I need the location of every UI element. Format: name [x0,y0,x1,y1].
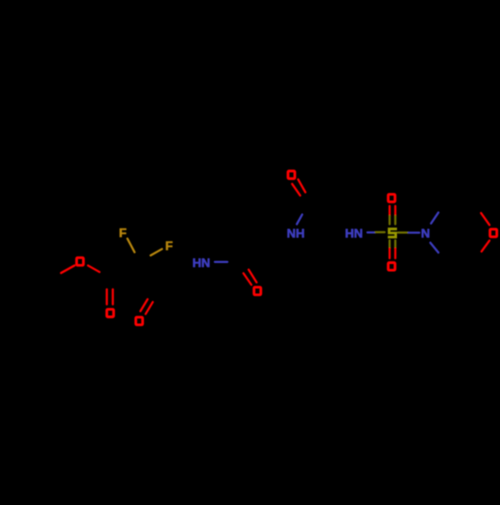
svg-text:HN: HN [192,256,210,270]
svg-text:F: F [165,239,173,253]
svg-text:HN: HN [345,227,363,241]
svg-text:NH: NH [287,226,305,240]
svg-text:N: N [421,227,430,241]
svg-text:F: F [119,226,127,240]
